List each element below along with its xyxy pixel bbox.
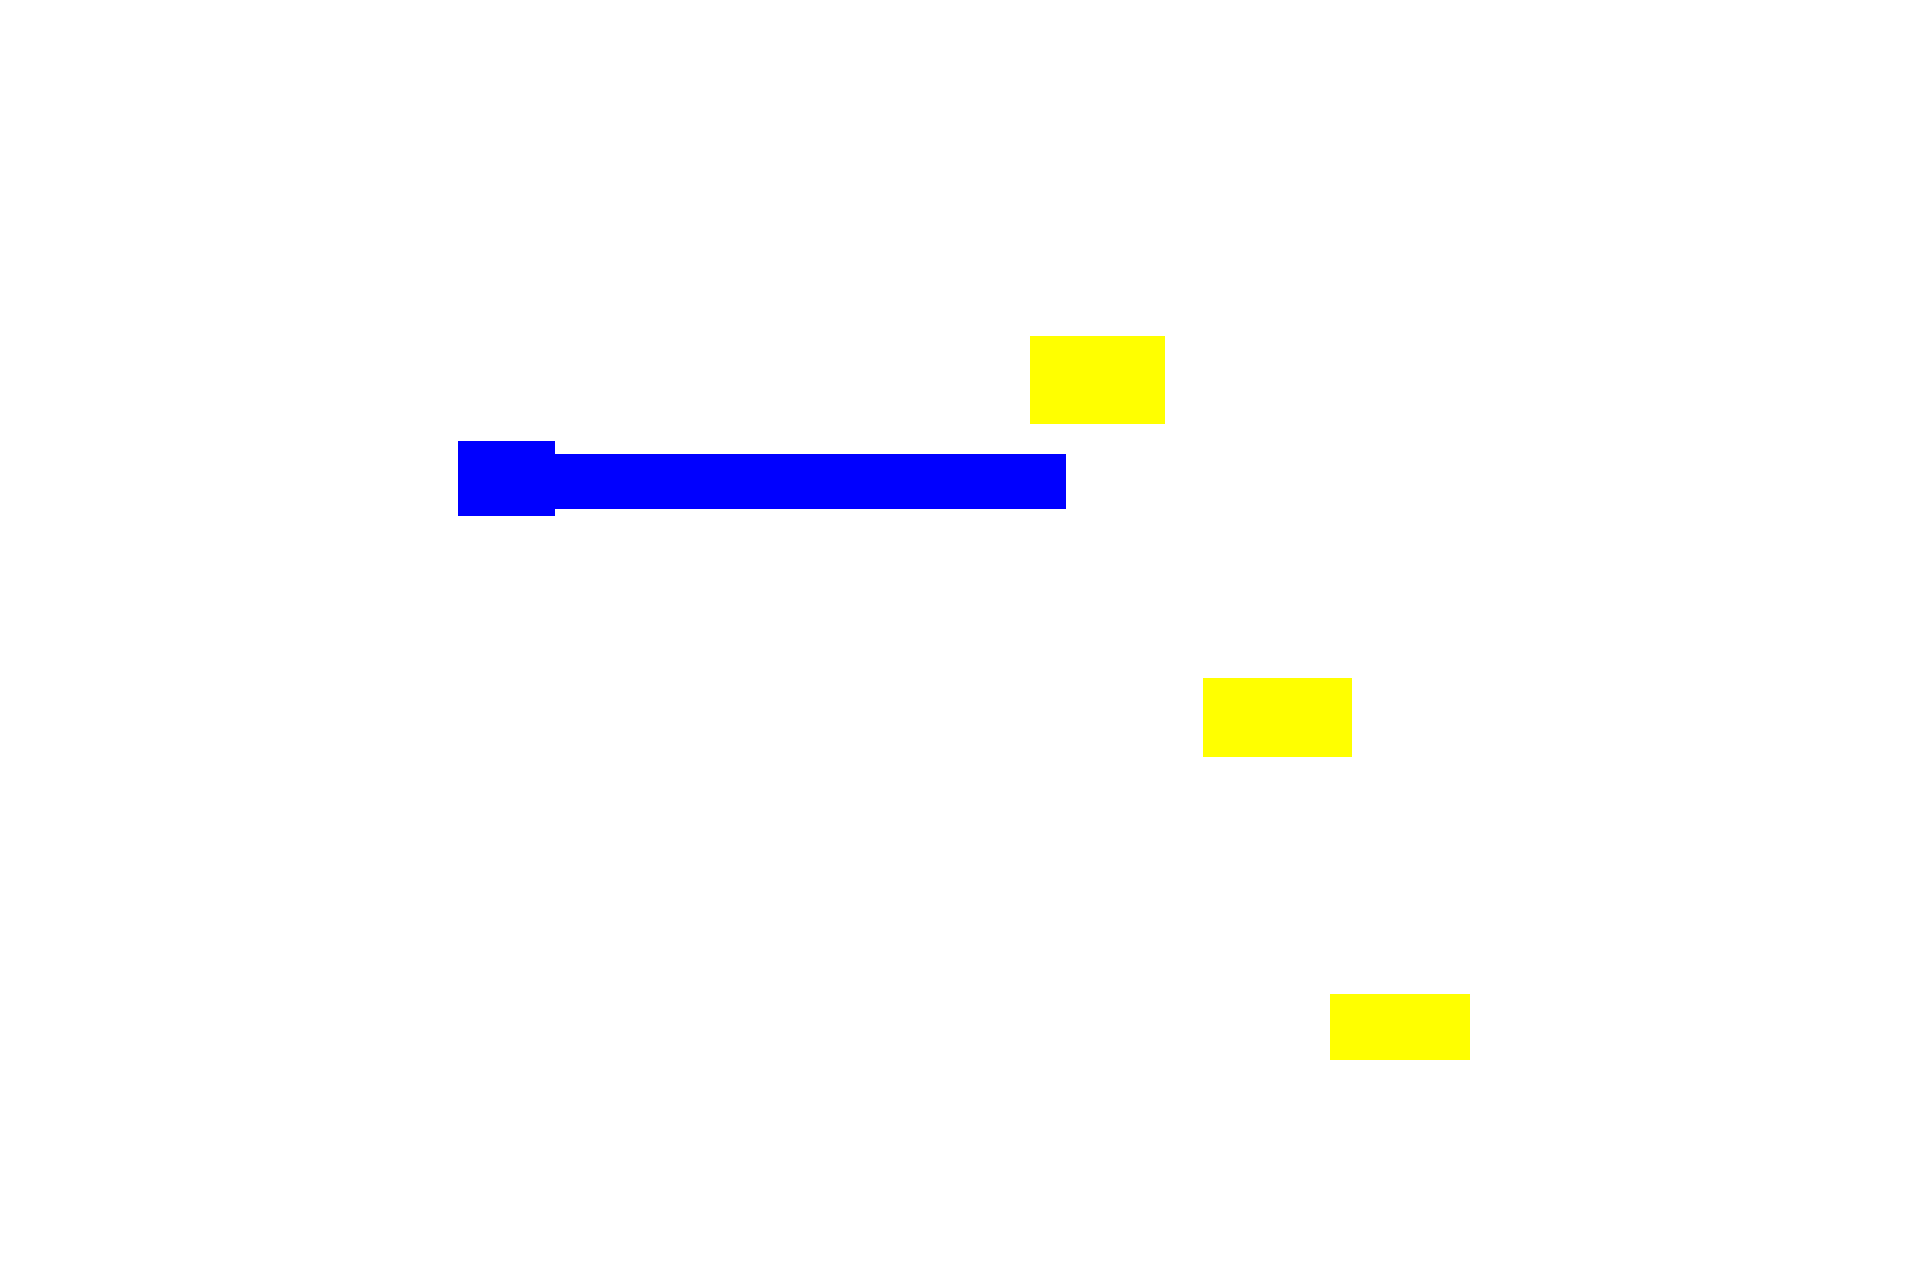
blue bar (long segment) [555,454,1066,509]
blue block left (tall segment) [458,441,555,516]
yellow highlight 3 [1330,994,1470,1060]
yellow highlight 1 [1030,336,1165,424]
yellow highlight 2 [1203,678,1352,757]
